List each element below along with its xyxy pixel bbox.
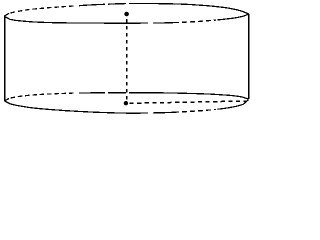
top center dot [124,12,129,17]
bottom center dot [124,101,128,105]
left side line [4,17,6,101]
dashed radius line [130,101,248,103]
dashed axis between centers [126,19,128,100]
bottom ellipse front arc (solid, dashed mid-right) [5,100,249,113]
top ellipse back arc (hidden part dashed) [4,4,249,17]
top ellipse front arc (solid, dashed mid-right) [4,14,249,23]
right side line [248,14,250,99]
bottom ellipse back arc (hidden part dashed) [5,93,249,101]
